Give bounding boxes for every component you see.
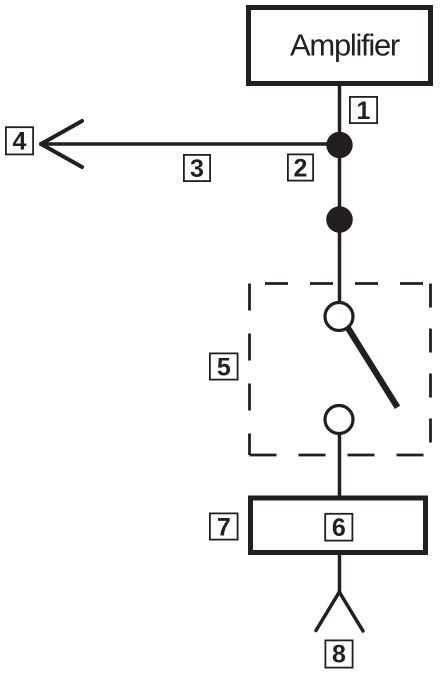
dashed enclosure top edge: [265, 282, 431, 285]
svg-text:1: 1: [357, 97, 371, 125]
arrowhead antenna (item 4): [41, 121, 82, 167]
label 8: [325, 640, 352, 668]
label 1: [350, 97, 377, 125]
svg-text:Amplifier: Amplifier: [290, 28, 400, 63]
label 2: [288, 154, 313, 182]
wire from box to antenna: [338, 555, 342, 592]
dashed enclosure bottom edge: [250, 454, 431, 457]
switch top contact: [325, 303, 353, 331]
svg-text:2: 2: [294, 155, 308, 183]
label 5: [210, 353, 238, 381]
dashed enclosure (item 5): [250, 284, 431, 456]
junction dot A: [326, 132, 352, 158]
svg-text:3: 3: [190, 155, 204, 183]
junction dot B: [326, 206, 353, 233]
label 6: [325, 514, 352, 542]
wire horizontal to arrow: [42, 142, 340, 146]
switch bottom contact: [325, 406, 353, 434]
amplifier box U1: [249, 8, 431, 84]
dashed enclosure left edge: [248, 284, 251, 456]
label 7: [210, 513, 238, 541]
wire from switch to box: [338, 434, 342, 497]
solid box (item 7): [251, 498, 426, 553]
svg-text:4: 4: [13, 128, 27, 156]
svg-text:7: 7: [217, 513, 231, 541]
svg-text:6: 6: [332, 514, 346, 542]
label 4: [6, 127, 33, 155]
switch lever: [348, 327, 398, 407]
wire vertical from amplifier to switch: [338, 86, 342, 303]
svg-text:8: 8: [332, 641, 346, 669]
antenna (item 8): [316, 592, 363, 631]
svg-text:5: 5: [217, 354, 231, 382]
label 3: [184, 155, 210, 183]
dashed enclosure right edge: [429, 284, 432, 456]
